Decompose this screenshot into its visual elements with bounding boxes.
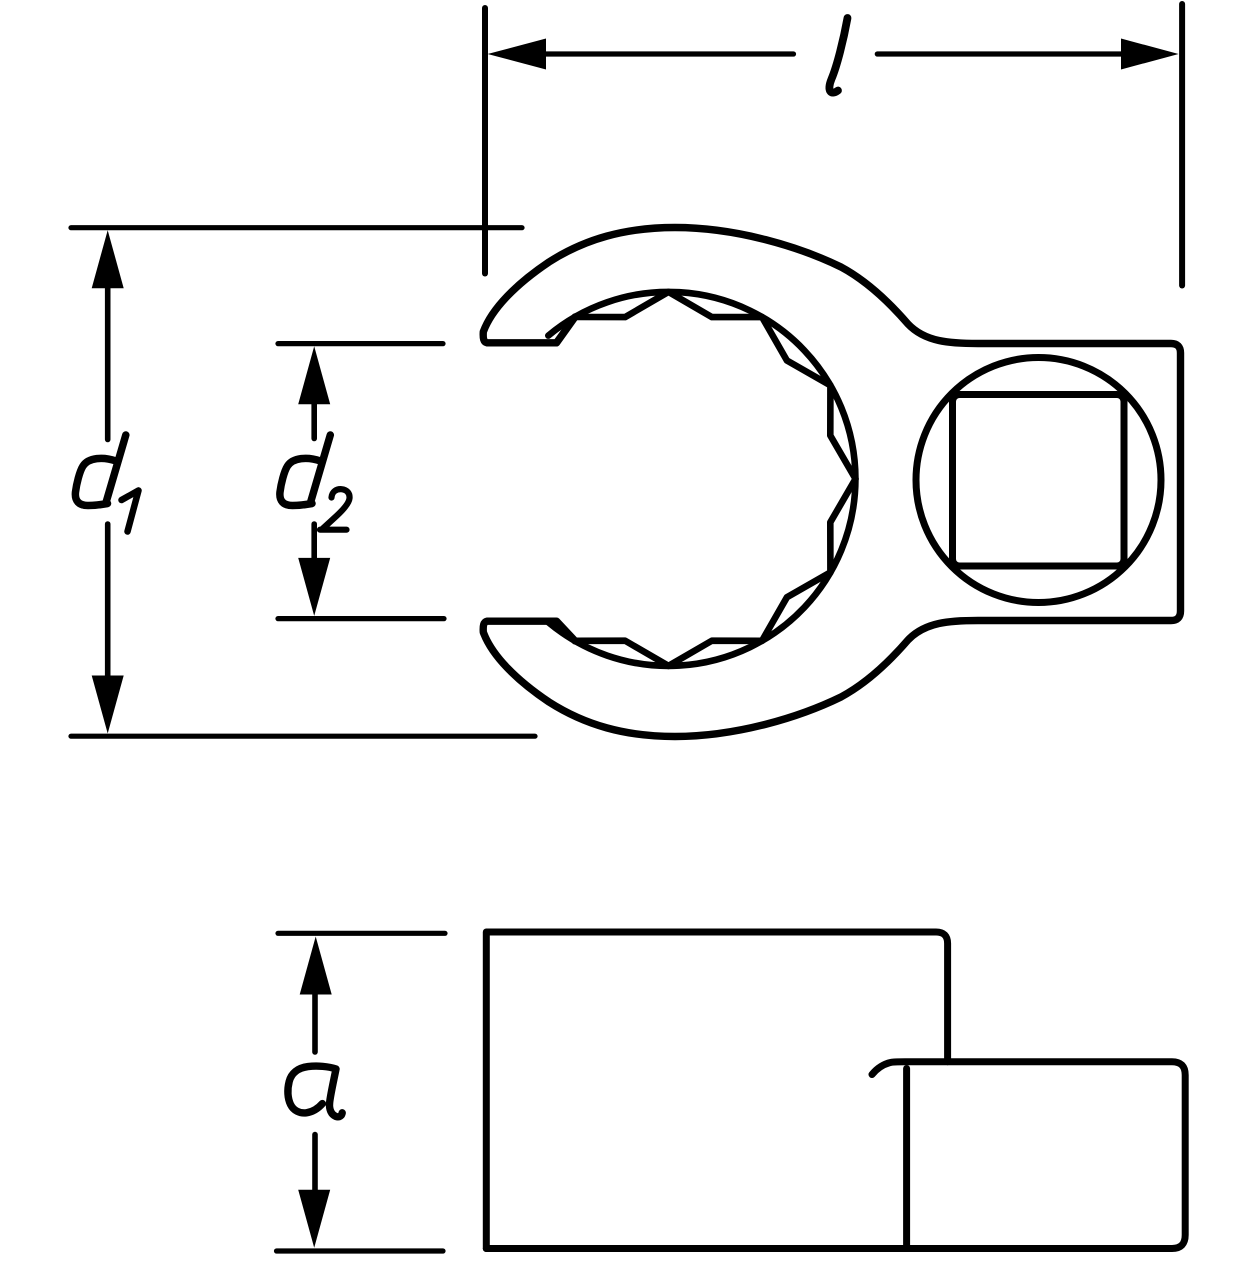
d2 bottom extension line xyxy=(278,616,444,621)
square drive square xyxy=(953,395,1125,567)
extension line right of dimension l xyxy=(1179,4,1185,286)
label d2 : subscript 2 xyxy=(320,489,350,530)
arrowhead down of a xyxy=(298,1190,330,1248)
arrowhead down of d2 xyxy=(298,558,330,616)
square drive circle xyxy=(916,358,1161,603)
d2 dimension line lower segment xyxy=(311,524,317,559)
extension line left of dimension l xyxy=(482,8,488,274)
arrowhead up of a xyxy=(300,937,332,995)
d1 dimension line lower segment xyxy=(105,524,111,676)
label a xyxy=(288,1066,342,1117)
arrowhead right of l xyxy=(1121,39,1179,70)
label d1 : d stroke xyxy=(75,435,125,506)
label d1 : subscript 1 xyxy=(122,491,139,532)
arrowhead down of d1 xyxy=(92,676,124,734)
arrowhead up of d2 xyxy=(298,346,330,404)
d1 bottom extension line xyxy=(71,734,535,739)
dimension line l left segment xyxy=(545,51,794,56)
a dimension line lower segment xyxy=(312,1135,318,1191)
d1 dimension line upper segment xyxy=(105,287,111,440)
12-point star chords xyxy=(575,292,856,666)
a dimension line upper segment xyxy=(312,993,318,1052)
d1 top extension line xyxy=(71,225,522,230)
a top extension line xyxy=(278,931,445,936)
arrowhead left of l xyxy=(488,39,546,70)
label d2 : d stroke xyxy=(280,435,330,506)
dimension line l right segment xyxy=(877,51,1123,56)
side view step, right edge and bottom xyxy=(486,1062,1185,1249)
inner 12-point root circle arc xyxy=(548,292,855,666)
arrowhead up of d1 xyxy=(92,230,124,288)
d2 top extension line xyxy=(278,341,443,346)
label l xyxy=(829,18,847,93)
d2 dimension line upper segment xyxy=(311,403,317,439)
a bottom extension line xyxy=(277,1248,444,1253)
side view main outline xyxy=(486,932,947,1249)
side view inner edge vertical xyxy=(903,1069,910,1246)
wrench head outline (top view) xyxy=(483,228,1180,737)
